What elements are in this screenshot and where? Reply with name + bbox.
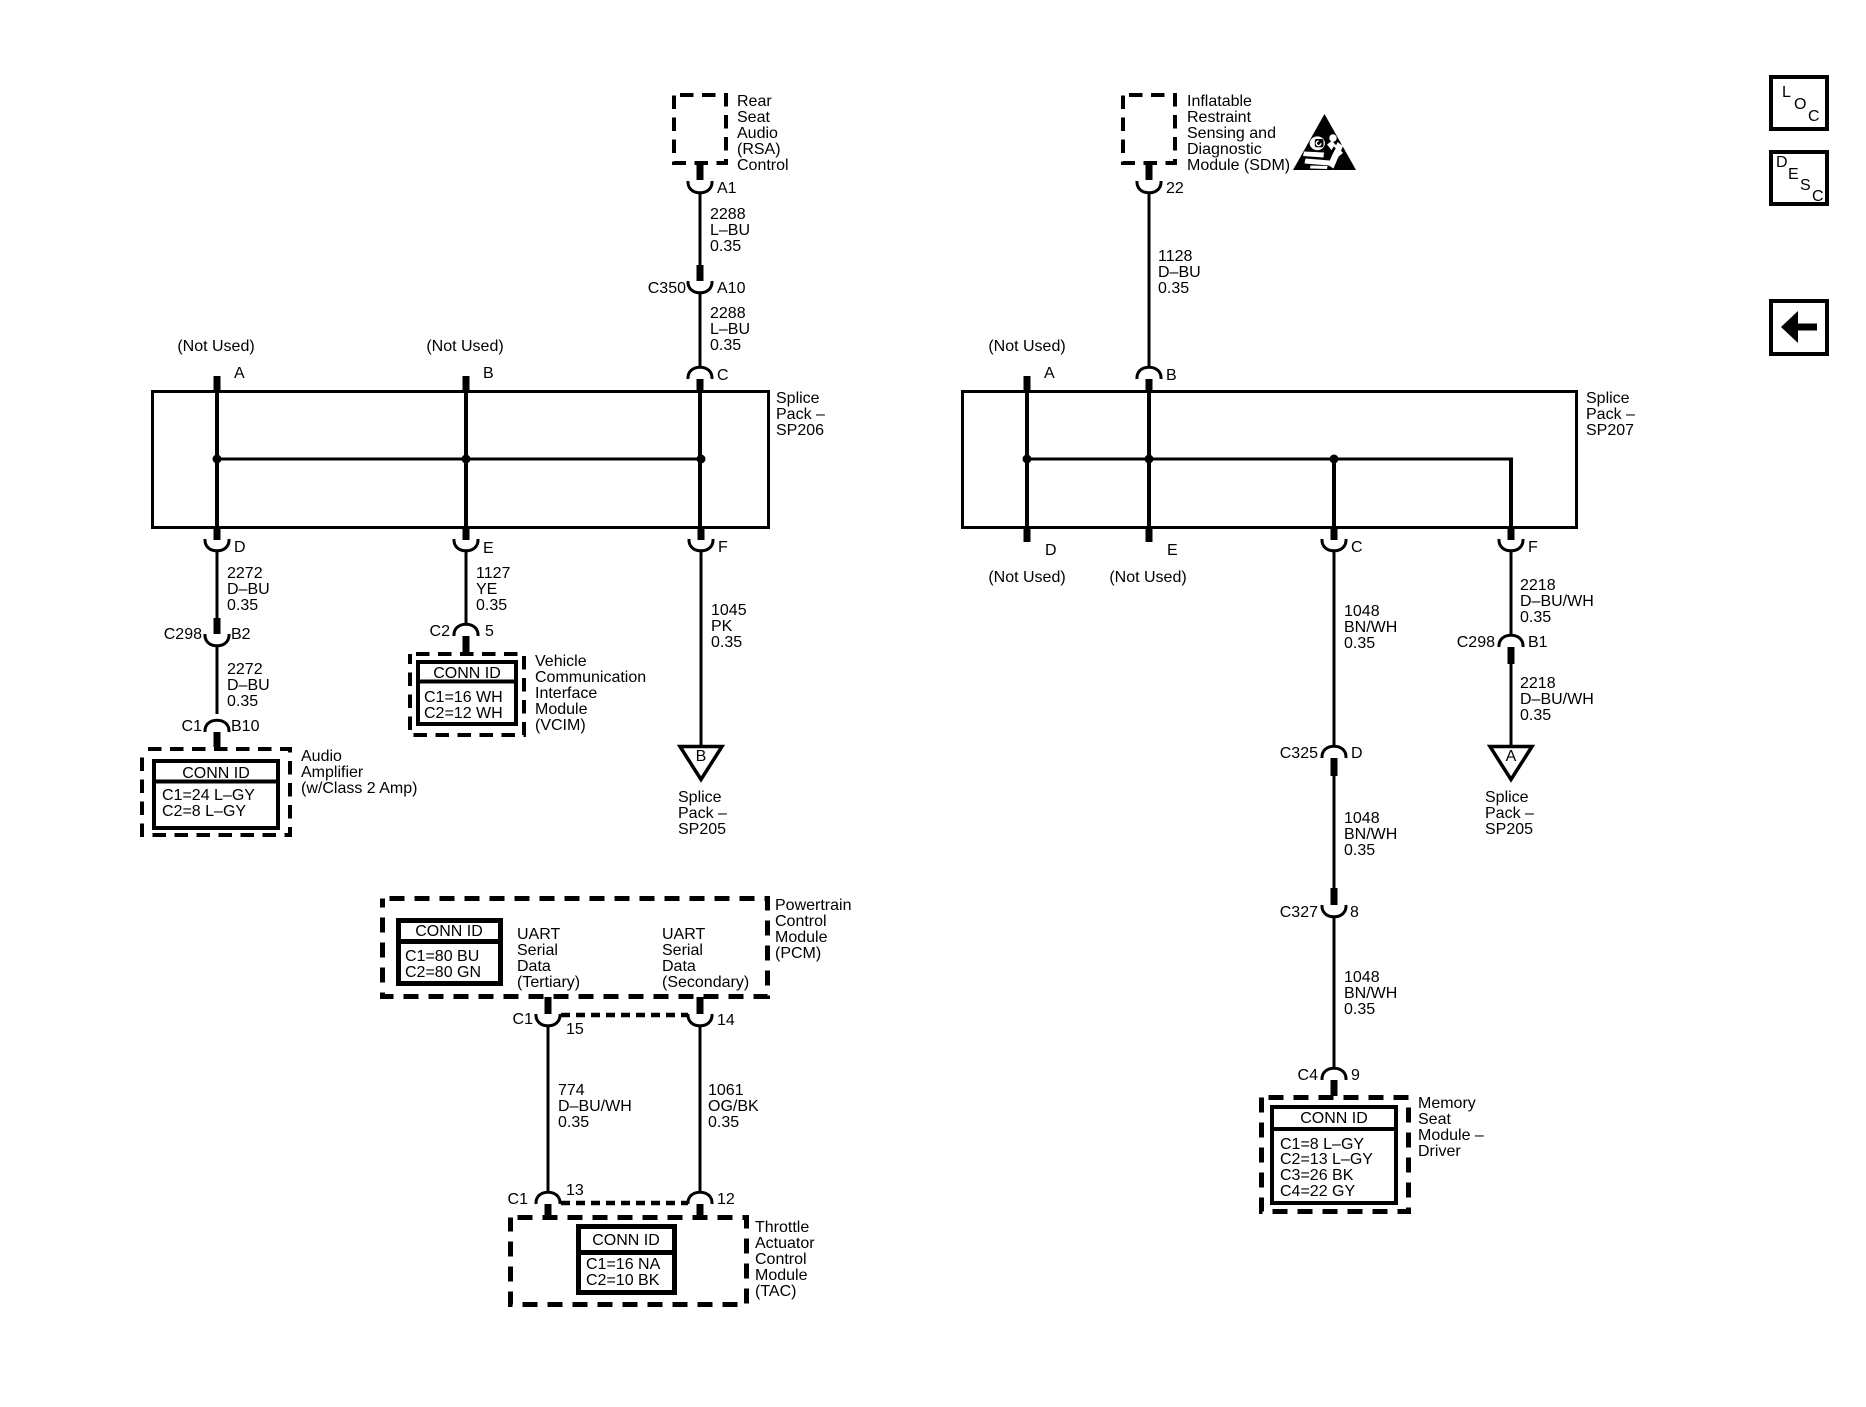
svg-text:F: F bbox=[718, 539, 728, 556]
svg-text:Module (SDM): Module (SDM) bbox=[1187, 157, 1290, 174]
module Memory Seat Module Driver (dashed box) bbox=[1262, 1098, 1409, 1212]
connector pin D at SP206 bottom (bar + cup) bbox=[205, 527, 246, 556]
label wire 1048 (first) bbox=[1344, 603, 1397, 652]
svg-text:(RSA): (RSA) bbox=[737, 141, 781, 158]
svg-text:0.35: 0.35 bbox=[227, 597, 258, 614]
svg-text:E: E bbox=[1788, 166, 1799, 183]
svg-text:Amplifier: Amplifier bbox=[301, 764, 364, 781]
junction node C (SP207) bbox=[1330, 455, 1339, 464]
svg-text:Splice: Splice bbox=[678, 789, 722, 806]
svg-text:SP205: SP205 bbox=[678, 821, 726, 838]
wire 2218 D-BU/WH 0.35 (F to C298) bbox=[1510, 551, 1513, 635]
wire 1045 PK 0.35 (F to splice pack SP205 B) bbox=[700, 551, 703, 745]
label wire 1045 bbox=[711, 602, 747, 651]
svg-text:CONN ID: CONN ID bbox=[1300, 1110, 1368, 1127]
svg-text:L–BU: L–BU bbox=[710, 321, 750, 338]
label wire 2272 bbox=[227, 565, 270, 614]
svg-text:C2: C2 bbox=[430, 623, 451, 640]
CONN ID table (PCM) bbox=[396, 921, 503, 984]
svg-text:C1=80 BU: C1=80 BU bbox=[405, 948, 479, 965]
label wire 1128 bbox=[1158, 248, 1201, 297]
wire 2272 D-BU 0.35 (D to C298) bbox=[216, 551, 219, 618]
pin A stub at SP207 top (bar, not used) bbox=[1024, 365, 1056, 391]
svg-text:Serial: Serial bbox=[517, 942, 558, 959]
svg-text:Control: Control bbox=[737, 157, 789, 174]
svg-text:0.35: 0.35 bbox=[1344, 635, 1375, 652]
wire 1048 BN/WH 0.35 (C327 to C4) bbox=[1333, 917, 1336, 1068]
connector pin C at SP207 bottom (bar + cup) bbox=[1322, 527, 1363, 556]
splice pack SP205 triangle B bbox=[680, 747, 722, 780]
svg-text:0.35: 0.35 bbox=[476, 597, 507, 614]
back arrow box bbox=[1771, 301, 1827, 354]
svg-text:C4: C4 bbox=[1298, 1067, 1319, 1084]
svg-text:A: A bbox=[234, 365, 245, 382]
CONN ID table (Memory Seat Module) bbox=[1270, 1107, 1398, 1203]
pin A stub (bar, not used) bbox=[214, 365, 246, 391]
SP207 column F wire (bus corner drop) bbox=[1509, 459, 1513, 527]
label wire 2218 (second) bbox=[1520, 675, 1594, 724]
svg-text:Splice: Splice bbox=[1586, 390, 1630, 407]
SIR airbag caution icon (black triangle) bbox=[1293, 114, 1356, 170]
SP206 column B wire bbox=[464, 391, 468, 527]
svg-text:(VCIM): (VCIM) bbox=[535, 717, 586, 734]
label Splice Pack SP205 (right) bbox=[1485, 789, 1534, 838]
svg-text:0.35: 0.35 bbox=[1344, 842, 1375, 859]
svg-text:2218: 2218 bbox=[1520, 675, 1556, 692]
svg-text:Restraint: Restraint bbox=[1187, 109, 1252, 126]
svg-text:Pack –: Pack – bbox=[678, 805, 727, 822]
svg-text:B: B bbox=[483, 365, 494, 382]
svg-text:BN/WH: BN/WH bbox=[1344, 619, 1397, 636]
SP207 column C wire bbox=[1332, 459, 1336, 527]
svg-text:Splice: Splice bbox=[1485, 789, 1529, 806]
svg-text:(PCM): (PCM) bbox=[775, 945, 821, 962]
svg-text:E: E bbox=[1167, 542, 1178, 559]
svg-text:Rear: Rear bbox=[737, 93, 772, 110]
svg-text:2218: 2218 bbox=[1520, 577, 1556, 594]
svg-text:UART: UART bbox=[662, 926, 705, 943]
svg-text:L: L bbox=[1782, 84, 1791, 101]
svg-text:D: D bbox=[234, 539, 246, 556]
connector pin A1 (bar + cup) bbox=[688, 163, 737, 197]
connector body joint (dashed, PCM side) bbox=[561, 1013, 688, 1018]
label RSA Control bbox=[737, 93, 789, 174]
label wire 1048 (third) bbox=[1344, 969, 1397, 1018]
svg-text:Module: Module bbox=[755, 1267, 808, 1284]
svg-text:YE: YE bbox=[476, 581, 497, 598]
svg-text:D–BU/WH: D–BU/WH bbox=[1520, 691, 1594, 708]
label wire 2288 (second) bbox=[710, 305, 750, 354]
label SDM bbox=[1187, 93, 1290, 174]
SP206 column A wire bbox=[215, 391, 219, 527]
svg-text:CONN ID: CONN ID bbox=[182, 765, 250, 782]
svg-text:C1=16 NA: C1=16 NA bbox=[586, 1256, 661, 1273]
module Throttle Actuator Control Module TAC (dashed box) bbox=[511, 1218, 747, 1305]
svg-text:Seat: Seat bbox=[737, 109, 770, 126]
svg-text:C4=22 GY: C4=22 GY bbox=[1280, 1183, 1355, 1200]
svg-text:C298: C298 bbox=[164, 626, 202, 643]
svg-text:22: 22 bbox=[1166, 180, 1184, 197]
svg-text:C2=80 GN: C2=80 GN bbox=[405, 964, 481, 981]
splice pack SP205 triangle A bbox=[1490, 747, 1532, 780]
svg-text:Pack –: Pack – bbox=[1586, 406, 1635, 423]
svg-text:0.35: 0.35 bbox=[708, 1114, 739, 1131]
svg-text:O: O bbox=[1794, 96, 1806, 113]
svg-text:5: 5 bbox=[485, 623, 494, 640]
svg-text:C2=13 L–GY: C2=13 L–GY bbox=[1280, 1151, 1373, 1168]
svg-text:Control: Control bbox=[775, 913, 827, 930]
label wire 774 bbox=[558, 1082, 632, 1131]
svg-text:CONN ID: CONN ID bbox=[592, 1232, 660, 1249]
svg-text:C2=10 BK: C2=10 BK bbox=[586, 1272, 660, 1289]
label UART Serial Data (Secondary) bbox=[662, 926, 749, 991]
svg-text:C1: C1 bbox=[508, 1191, 529, 1208]
svg-text:Driver: Driver bbox=[1418, 1143, 1461, 1160]
svg-text:Data: Data bbox=[517, 958, 551, 975]
junction node B (SP207) bbox=[1145, 455, 1154, 464]
svg-text:8: 8 bbox=[1350, 904, 1359, 921]
label Audio Amplifier bbox=[301, 748, 417, 797]
svg-text:0.35: 0.35 bbox=[1520, 609, 1551, 626]
svg-text:0.35: 0.35 bbox=[710, 337, 741, 354]
svg-text:0.35: 0.35 bbox=[710, 238, 741, 255]
connector C1 pin 15 at PCM (bar + cup) bbox=[513, 997, 584, 1038]
svg-text:Memory: Memory bbox=[1418, 1095, 1476, 1112]
svg-text:Module: Module bbox=[535, 701, 588, 718]
connector pin F at SP206 bottom (bar + cup) bbox=[689, 527, 728, 556]
svg-text:2288: 2288 bbox=[710, 206, 746, 223]
module Inflatable Restraint SDM (dashed box) bbox=[1123, 95, 1175, 163]
svg-text:C1: C1 bbox=[513, 1011, 534, 1028]
DESC reference box bbox=[1771, 152, 1827, 205]
pin E stub at SP207 bottom (bar, not used) bbox=[1146, 527, 1178, 559]
svg-text:C1=16 WH: C1=16 WH bbox=[424, 689, 503, 706]
svg-text:Control: Control bbox=[755, 1251, 807, 1268]
svg-text:C: C bbox=[717, 367, 729, 384]
svg-text:1048: 1048 bbox=[1344, 603, 1380, 620]
CONN ID table (VCIM) bbox=[416, 662, 518, 724]
svg-text:B2: B2 bbox=[231, 626, 251, 643]
CONN ID table (TAC) bbox=[576, 1227, 677, 1293]
connector C1 pin B10 at amplifier (dome + bar) bbox=[182, 718, 260, 747]
svg-text:C350: C350 bbox=[648, 280, 686, 297]
svg-text:C: C bbox=[1351, 539, 1363, 556]
label wire 1061 bbox=[708, 1082, 759, 1131]
pin B stub (bar, not used) bbox=[463, 365, 494, 391]
svg-text:13: 13 bbox=[566, 1182, 584, 1199]
svg-text:Communication: Communication bbox=[535, 669, 646, 686]
svg-text:OG/BK: OG/BK bbox=[708, 1098, 759, 1115]
connector C325 pin D (dome + bar) bbox=[1280, 745, 1363, 776]
svg-text:BN/WH: BN/WH bbox=[1344, 985, 1397, 1002]
SP206 internal bus wire bbox=[217, 458, 701, 461]
svg-text:B1: B1 bbox=[1528, 634, 1548, 651]
junction node A (SP207) bbox=[1023, 455, 1032, 464]
svg-text:A: A bbox=[1044, 365, 1055, 382]
svg-text:A1: A1 bbox=[717, 180, 737, 197]
svg-text:Serial: Serial bbox=[662, 942, 703, 959]
pin D stub at SP207 bottom (bar, not used) bbox=[1024, 527, 1057, 559]
svg-text:(Not Used): (Not Used) bbox=[988, 569, 1065, 586]
CONN ID table (Audio Amplifier) bbox=[152, 761, 280, 828]
svg-text:D–BU/WH: D–BU/WH bbox=[1520, 593, 1594, 610]
svg-text:D–BU: D–BU bbox=[1158, 264, 1201, 281]
wire 1048 BN/WH 0.35 (C to C325) bbox=[1333, 551, 1336, 746]
svg-text:0.35: 0.35 bbox=[558, 1114, 589, 1131]
wire 774 D-BU/WH 0.35 (15 to 13) bbox=[547, 1026, 550, 1192]
connector C298 pin B2 (bar + cup) bbox=[164, 618, 251, 646]
svg-text:C1: C1 bbox=[182, 718, 203, 735]
connector pin E at SP206 bottom (bar + cup) bbox=[454, 527, 494, 557]
svg-text:E: E bbox=[483, 540, 494, 557]
svg-text:C1=24 L–GY: C1=24 L–GY bbox=[162, 787, 255, 804]
connector pin 12 at TAC (dome + bar) bbox=[688, 1191, 735, 1218]
svg-text:S: S bbox=[1800, 177, 1811, 194]
svg-text:1048: 1048 bbox=[1344, 810, 1380, 827]
label Powertrain Control Module (PCM) bbox=[775, 897, 851, 962]
svg-text:15: 15 bbox=[566, 1021, 584, 1038]
svg-text:Pack –: Pack – bbox=[1485, 805, 1534, 822]
SP207 internal bus wire bbox=[1027, 458, 1513, 461]
label wire 1127 bbox=[476, 565, 511, 614]
label wire 2288 bbox=[710, 206, 750, 255]
svg-text:(Not Used): (Not Used) bbox=[1109, 569, 1186, 586]
svg-text:Throttle: Throttle bbox=[755, 1219, 809, 1236]
svg-text:Audio: Audio bbox=[737, 125, 778, 142]
label wire 1048 (second) bbox=[1344, 810, 1397, 859]
svg-text:Module –: Module – bbox=[1418, 1127, 1484, 1144]
connector pin B at SP207 top (dome + bar) bbox=[1137, 367, 1177, 391]
svg-text:9: 9 bbox=[1351, 1067, 1360, 1084]
svg-text:1128: 1128 bbox=[1158, 248, 1193, 265]
svg-text:C2=8 L–GY: C2=8 L–GY bbox=[162, 803, 246, 820]
LOC reference box bbox=[1771, 77, 1827, 129]
module Audio Amplifier (dashed box) bbox=[142, 749, 290, 835]
svg-text:L–BU: L–BU bbox=[710, 222, 750, 239]
svg-text:Powertrain: Powertrain bbox=[775, 897, 851, 914]
wire 2288 L-BU 0.35 (C350 to splice pack C) bbox=[699, 293, 702, 367]
svg-text:0.35: 0.35 bbox=[227, 693, 258, 710]
label wire 2218 (first) bbox=[1520, 577, 1594, 626]
svg-text:BN/WH: BN/WH bbox=[1344, 826, 1397, 843]
svg-text:774: 774 bbox=[558, 1082, 585, 1099]
svg-text:Interface: Interface bbox=[535, 685, 597, 702]
svg-text:B10: B10 bbox=[231, 718, 260, 735]
junction node B bbox=[462, 455, 471, 464]
wire 1061 OG/BK 0.35 (14 to 12) bbox=[699, 1026, 702, 1192]
svg-text:D: D bbox=[1045, 542, 1057, 559]
svg-text:CONN ID: CONN ID bbox=[433, 665, 501, 682]
svg-text:A: A bbox=[1506, 748, 1517, 765]
svg-text:1048: 1048 bbox=[1344, 969, 1380, 986]
label Throttle Actuator Control Module (TAC) bbox=[755, 1219, 815, 1300]
label wire 2272 (second) bbox=[227, 661, 270, 710]
svg-text:Actuator: Actuator bbox=[755, 1235, 815, 1252]
SP207 column B wire bbox=[1147, 391, 1151, 527]
svg-text:C: C bbox=[1812, 188, 1824, 205]
svg-text:Splice: Splice bbox=[776, 390, 820, 407]
connector pin 22 at SDM (bar + cup) bbox=[1137, 163, 1184, 197]
svg-text:Pack –: Pack – bbox=[776, 406, 825, 423]
svg-text:F: F bbox=[1528, 539, 1538, 556]
label VCIM bbox=[535, 653, 646, 734]
svg-text:(Not Used): (Not Used) bbox=[177, 338, 254, 355]
connector pin 14 at PCM (bar + cup) bbox=[688, 997, 735, 1029]
connector C350 pin A10 (bar + cup) bbox=[648, 265, 746, 297]
SP207 column A wire bbox=[1025, 391, 1029, 527]
svg-text:(Tertiary): (Tertiary) bbox=[517, 974, 580, 991]
svg-text:UART: UART bbox=[517, 926, 560, 943]
connector C4 pin 9 at memory seat module (dome + bar) bbox=[1298, 1067, 1360, 1096]
svg-text:2288: 2288 bbox=[710, 305, 746, 322]
wire 2272 D-BU 0.35 (C298 to amplifier) bbox=[216, 646, 219, 714]
connector pin C at SP206 top (dome + bar) bbox=[688, 367, 729, 391]
module Powertrain Control Module PCM (dashed box) bbox=[383, 899, 768, 997]
wire 1048 BN/WH 0.35 (C325 to C327) bbox=[1333, 776, 1336, 888]
svg-text:SP206: SP206 bbox=[776, 422, 824, 439]
svg-text:D: D bbox=[1351, 745, 1363, 762]
svg-text:PK: PK bbox=[711, 618, 733, 635]
svg-text:(TAC): (TAC) bbox=[755, 1283, 796, 1300]
svg-text:C298: C298 bbox=[1457, 634, 1495, 651]
svg-text:0.35: 0.35 bbox=[1158, 280, 1189, 297]
svg-text:2272: 2272 bbox=[227, 661, 263, 678]
svg-text:C3=26 BK: C3=26 BK bbox=[1280, 1167, 1354, 1184]
svg-text:B: B bbox=[1166, 367, 1177, 384]
splice pack SP206 (rectangle) bbox=[153, 392, 769, 528]
svg-text:SP205: SP205 bbox=[1485, 821, 1533, 838]
svg-text:Data: Data bbox=[662, 958, 696, 975]
svg-text:0.35: 0.35 bbox=[711, 634, 742, 651]
svg-text:(Secondary): (Secondary) bbox=[662, 974, 749, 991]
connector pin F at SP207 bottom (bar + cup) bbox=[1499, 527, 1538, 556]
svg-text:C325: C325 bbox=[1280, 745, 1318, 762]
wire 1127 YE 0.35 (E to VCIM) bbox=[465, 551, 468, 624]
label Splice Pack SP207 bbox=[1586, 390, 1635, 439]
svg-text:1061: 1061 bbox=[708, 1082, 744, 1099]
connector C298 pin B1 (dome + bar) bbox=[1457, 634, 1548, 664]
wire 1128 D-BU 0.35 (22 to SP207 B) bbox=[1148, 193, 1151, 367]
label Splice Pack SP206 bbox=[776, 390, 825, 439]
label Splice Pack SP205 (left) bbox=[678, 789, 727, 838]
connector C327 pin 8 (bar + cup) bbox=[1280, 888, 1359, 921]
splice pack SP207 (rectangle) bbox=[963, 392, 1577, 528]
module Rear Seat Audio (RSA) Control (dashed box) bbox=[674, 95, 726, 163]
SP206 column C wire bbox=[698, 391, 702, 527]
module Vehicle Communication Interface Module VCIM (dashed box) bbox=[410, 654, 524, 735]
label UART Serial Data (Tertiary) bbox=[517, 926, 580, 991]
svg-text:1045: 1045 bbox=[711, 602, 747, 619]
svg-text:C2=12 WH: C2=12 WH bbox=[424, 705, 503, 722]
svg-text:D–BU: D–BU bbox=[227, 581, 270, 598]
wire 2218 D-BU/WH 0.35 (C298 to SP205 A) bbox=[1510, 664, 1513, 745]
connector C1 pin 13 at TAC (dome + bar) bbox=[508, 1182, 584, 1218]
svg-text:B: B bbox=[696, 748, 707, 765]
wire 2288 L-BU 0.35 (A1 to C350) bbox=[699, 193, 702, 265]
svg-text:D: D bbox=[1776, 154, 1788, 171]
svg-text:CONN ID: CONN ID bbox=[415, 923, 483, 940]
svg-text:(Not Used): (Not Used) bbox=[426, 338, 503, 355]
svg-text:1127: 1127 bbox=[476, 565, 511, 582]
svg-text:0.35: 0.35 bbox=[1520, 707, 1551, 724]
svg-text:C: C bbox=[1808, 108, 1820, 125]
svg-text:(w/Class 2 Amp): (w/Class 2 Amp) bbox=[301, 780, 417, 797]
svg-text:Sensing and: Sensing and bbox=[1187, 125, 1276, 142]
svg-text:0.35: 0.35 bbox=[1344, 1001, 1375, 1018]
svg-text:D–BU/WH: D–BU/WH bbox=[558, 1098, 632, 1115]
svg-text:Module: Module bbox=[775, 929, 828, 946]
svg-text:Diagnostic: Diagnostic bbox=[1187, 141, 1262, 158]
svg-text:A10: A10 bbox=[717, 280, 746, 297]
svg-text:Audio: Audio bbox=[301, 748, 342, 765]
junction node A bbox=[213, 455, 222, 464]
svg-text:Seat: Seat bbox=[1418, 1111, 1451, 1128]
connector C2 pin 5 at VCIM (dome + bar) bbox=[430, 623, 494, 652]
svg-text:14: 14 bbox=[717, 1012, 735, 1029]
svg-text:Inflatable: Inflatable bbox=[1187, 93, 1252, 110]
connector body joint (dashed, TAC side) bbox=[561, 1201, 688, 1206]
svg-text:SP207: SP207 bbox=[1586, 422, 1634, 439]
svg-text:12: 12 bbox=[717, 1191, 735, 1208]
svg-text:2272: 2272 bbox=[227, 565, 263, 582]
svg-text:C327: C327 bbox=[1280, 904, 1318, 921]
svg-text:(Not Used): (Not Used) bbox=[988, 338, 1065, 355]
junction node C bbox=[697, 455, 706, 464]
label Memory Seat Module Driver bbox=[1418, 1095, 1484, 1160]
svg-text:D–BU: D–BU bbox=[227, 677, 270, 694]
svg-text:Vehicle: Vehicle bbox=[535, 653, 587, 670]
